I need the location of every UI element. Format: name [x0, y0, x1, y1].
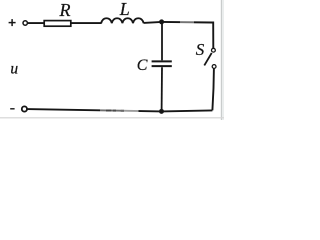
wire switch to bottom-right corner [212, 69, 214, 111]
capacitor top lead [161, 24, 163, 60]
wire node to top-right corner [162, 21, 212, 24]
wire terminal to resistor [28, 22, 45, 24]
scan edge line bottom [0, 117, 224, 118]
negative terminal circle [22, 106, 27, 111]
switch S top terminal circle [212, 48, 216, 52]
bottom wire [27, 109, 212, 111]
svg-text:C: C [137, 57, 148, 74]
svg-text:R: R [59, 0, 71, 20]
svg-text:L: L [119, 0, 130, 19]
wire down right branch top [212, 23, 213, 49]
capacitor bottom lead [161, 67, 163, 111]
switch blade [204, 53, 211, 66]
junction node top [159, 19, 164, 24]
capacitor C plates [152, 60, 172, 62]
plus terminal sign [9, 19, 16, 26]
minus terminal sign [10, 108, 14, 110]
bottom wire faded scan patch [100, 108, 124, 113]
positive terminal circle [23, 21, 27, 25]
top wire faded scan patch [180, 21, 194, 24]
junction node bottom [159, 109, 164, 114]
wire resistor to inductor [71, 22, 102, 24]
svg-text:u: u [10, 60, 18, 77]
switch bottom terminal circle [212, 65, 216, 69]
svg-text:S: S [196, 40, 205, 59]
wire inductor to node [144, 22, 162, 23]
scan edge line right [221, 0, 222, 120]
inductor L [101, 18, 143, 23]
resistor R [44, 21, 71, 27]
